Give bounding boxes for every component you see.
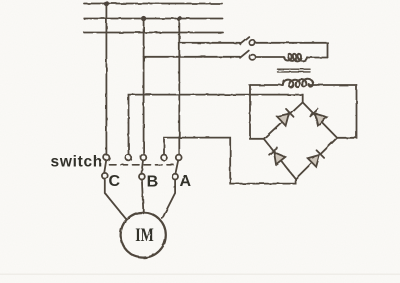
wire bridge arm left-bottom [264, 139, 296, 179]
contact top A main [176, 155, 182, 161]
motor IM circle [121, 212, 166, 257]
wire motor lead B [142, 180, 144, 214]
wire bridge arm top-right [303, 102, 337, 137]
transformer T1 core line 2 [278, 71, 311, 73]
wire branch to contact K1 [179, 42, 240, 44]
contact bottom A [172, 174, 178, 180]
diode D4 [308, 150, 324, 166]
transformer T1 core line 1 [278, 68, 311, 70]
contact top A dc [161, 155, 167, 161]
wire K1 to transformer right [255, 43, 327, 58]
contact bottom C [102, 173, 108, 179]
scan shadow streak bottom [0, 274, 400, 276]
diode D2 [310, 109, 327, 126]
wire motor lead C [105, 179, 126, 219]
transformer T1 primary winding [284, 54, 307, 61]
diode D1 [277, 109, 294, 126]
contact top C main [104, 155, 110, 161]
svg-text:switch: switch [51, 154, 103, 171]
transformer T1 secondary winding [283, 79, 313, 88]
switch blade pole A [175, 160, 178, 174]
wire phase drop B [143, 19, 145, 155]
wire bus line L1 [84, 3, 222, 5]
svg-text:B: B [147, 174, 159, 191]
switch linkage dashed line [110, 164, 178, 166]
wire bus line L2 [84, 18, 223, 20]
svg-text:C: C [109, 173, 121, 190]
node junction dot on L2 left [141, 16, 146, 21]
wire branch to contact K2 [144, 56, 240, 58]
svg-text:A: A [180, 173, 192, 190]
wire DC positive to switch [129, 95, 303, 155]
wire K2 to primary coil [255, 56, 284, 58]
switch blade K1 [240, 37, 249, 44]
wire bus line L3 [84, 32, 223, 34]
contact bottom B [139, 174, 145, 180]
wire secondary right lead [308, 84, 356, 86]
contact terminal K2 [249, 54, 255, 60]
switch blade pole C [104, 160, 106, 173]
node junction dot on L2 right [177, 16, 182, 21]
svg-text:IM: IM [135, 225, 154, 246]
wire bridge arm bottom-right [296, 138, 337, 179]
wire secondary left lead [250, 84, 283, 86]
contact top C dc [125, 155, 131, 161]
wire motor lead A [162, 180, 175, 219]
node junction dot on L1 [104, 1, 109, 6]
wire bridge left edge [250, 85, 264, 139]
wire DC negative to switch [164, 138, 296, 184]
contact top B main [141, 155, 147, 161]
wire phase drop C [105, 4, 107, 155]
diode D3 [269, 148, 285, 164]
switch blade K2 [240, 51, 249, 58]
wire primary coil to right corner [307, 57, 327, 59]
switch blade pole B [141, 160, 143, 174]
wire bridge arm left-top [264, 102, 303, 138]
contact terminal K1 [249, 40, 255, 46]
wire phase drop A [178, 19, 180, 155]
wire bridge right edge [337, 85, 357, 138]
